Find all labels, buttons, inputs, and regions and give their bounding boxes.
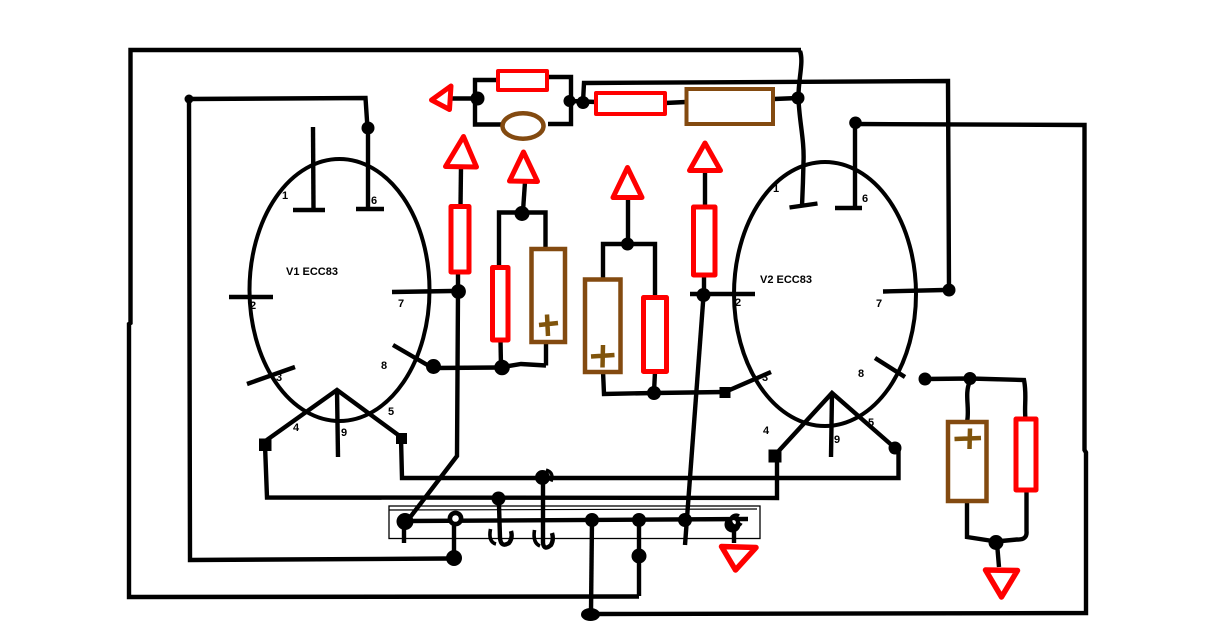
dot below strip right ring bbox=[725, 517, 741, 533]
box B1 (brown rectangle) bbox=[687, 89, 774, 124]
junction bus dot a bbox=[585, 513, 599, 527]
wire drop from bus dot to bottom wire bbox=[591, 520, 592, 612]
wire input to node bbox=[452, 96, 471, 100]
wire V1 pin8 diagonal and cathode network bbox=[393, 345, 430, 367]
wire B1 to pin1 node bbox=[774, 98, 798, 99]
V2 pin2 grid line bbox=[690, 292, 755, 296]
junction R1 right node bbox=[564, 95, 576, 107]
svg-text:3: 3 bbox=[762, 372, 768, 384]
square dot V2 pin3 bbox=[720, 387, 731, 398]
junction V2 pin5 dot bbox=[889, 442, 902, 455]
junction V1 pin8 dot bbox=[426, 359, 441, 374]
svg-text:5: 5 bbox=[868, 417, 874, 429]
wire hook drop 2 bbox=[543, 483, 553, 548]
junction bus dot c bbox=[678, 513, 692, 527]
wire input node up to R1 bbox=[475, 80, 498, 99]
svg-text:7: 7 bbox=[398, 298, 404, 310]
junction HT node bbox=[577, 96, 590, 109]
V2 heater triangle and pin9 bbox=[775, 393, 895, 455]
svg-text:7: 7 bbox=[876, 298, 882, 310]
wire R3 bottom stub bbox=[456, 272, 460, 291]
supply triangle T3 bbox=[613, 168, 642, 198]
wire pin7 node down-diagonal to big dot bbox=[408, 291, 458, 520]
ground triangle G2 bbox=[986, 570, 1018, 597]
wire T1 stub bbox=[458, 167, 463, 207]
supply triangle T4 bbox=[690, 143, 721, 171]
junction V2 pin7 node bbox=[943, 284, 956, 297]
wire V2 pin2 long drop to bus bbox=[685, 296, 704, 545]
ring on bus (hollow) bbox=[450, 513, 461, 524]
wire V1 pin7 line bbox=[392, 291, 452, 292]
V1 heater triangle and pin9 bbox=[264, 390, 401, 442]
svg-text:9: 9 bbox=[341, 427, 347, 439]
junction corner dot top-left bbox=[185, 95, 194, 104]
square dot V1 pin4 bbox=[259, 439, 272, 452]
wire heater run 2 (V1 pin4 to V2 pin4) bbox=[265, 445, 777, 498]
svg-text:1: 1 bbox=[282, 190, 288, 202]
wire drop ring to blob bbox=[452, 523, 456, 552]
wire C1 left side bbox=[475, 99, 502, 125]
input arrow triangle bbox=[432, 86, 452, 110]
wire C3/R5 bottom to V2 grid pin3 bbox=[603, 371, 725, 394]
junction V2 pin1 node bbox=[792, 92, 805, 105]
svg-text:2: 2 bbox=[250, 300, 256, 312]
svg-text:3: 3 bbox=[276, 372, 282, 384]
resistor R2 bbox=[596, 93, 665, 114]
wire ground bus in terminal strip bbox=[406, 519, 748, 521]
V2 pin6 plate bbox=[853, 124, 857, 208]
wire C4 top squiggle bbox=[967, 381, 970, 422]
svg-text:V2 ECC83: V2 ECC83 bbox=[760, 274, 812, 286]
resistor R6 bbox=[694, 207, 716, 275]
wire T2 stub bbox=[523, 182, 525, 211]
wire right border and bottom bus bbox=[591, 124, 1086, 614]
wire T4 stub bbox=[703, 171, 707, 207]
plus sign C3 bbox=[591, 345, 615, 368]
capacitor C3 bbox=[585, 280, 621, 373]
wire T3 stub bbox=[626, 198, 630, 244]
junction bus dot b bbox=[632, 513, 646, 527]
wire HT rail to V2 grid (y=82) and drop to pin 7 bbox=[583, 81, 949, 290]
junction V2 pin8 dot bbox=[919, 373, 932, 386]
wire C2 bottom stub bbox=[544, 342, 548, 366]
wire node to R2 bbox=[571, 101, 596, 102]
wire R6 bottom stub bbox=[702, 275, 706, 293]
wire R2 to B1 bbox=[665, 102, 686, 103]
svg-text:9: 9 bbox=[834, 434, 840, 446]
junction V2 pin6 node bbox=[849, 117, 862, 130]
wire R4 bottom stub bbox=[498, 340, 503, 367]
wire ground/border loop left-top bbox=[129, 50, 801, 597]
svg-text:4: 4 bbox=[763, 425, 770, 437]
resistor R7 bbox=[1016, 419, 1036, 490]
wire stub below big dot bbox=[402, 527, 406, 543]
junction V2 pin2 node bbox=[697, 288, 711, 302]
capacitor C2 bbox=[532, 249, 566, 342]
wire R1 right side down bbox=[547, 77, 571, 124]
junction R5 bottom dot bbox=[647, 386, 661, 400]
wire hook drop 1 bbox=[499, 505, 512, 545]
wire V1 pin2 grid line bbox=[229, 295, 273, 299]
V2 pin1 plate drop from top rail bbox=[798, 51, 803, 206]
junction input node bbox=[471, 92, 485, 106]
junction V1 pin7 node bbox=[451, 284, 466, 299]
ground triangle G1 bbox=[722, 547, 757, 571]
curl on hook dot 2 bbox=[546, 470, 552, 482]
svg-text:6: 6 bbox=[371, 195, 377, 207]
junction heater2 hook dot bbox=[492, 492, 506, 506]
terminal strip thin rectangle bbox=[389, 506, 760, 539]
capacitor C4 bbox=[948, 422, 987, 501]
blob on drop b bbox=[632, 549, 647, 564]
svg-text:6: 6 bbox=[862, 193, 868, 205]
junction goalpost 2 node bbox=[515, 206, 530, 221]
wire V1 pin3 diagonal bbox=[247, 367, 295, 384]
resistor R3 bbox=[451, 207, 469, 273]
svg-text:5: 5 bbox=[388, 406, 394, 418]
wire V2 cathode to R7/C4 bbox=[925, 379, 1026, 420]
supply triangle T2 bbox=[510, 152, 538, 182]
junction heater1 hook dot bbox=[535, 470, 550, 485]
plus sign C4 bbox=[955, 429, 982, 450]
wire stub to ground G2 bbox=[997, 543, 999, 567]
square dot V1 pin5 bbox=[396, 433, 407, 444]
ring strip right (hollow) bbox=[731, 520, 736, 525]
svg-text:4: 4 bbox=[293, 422, 300, 434]
blob below ring bbox=[446, 550, 462, 566]
blob bottom-left of bottom wire bbox=[581, 608, 600, 621]
tube V2 ECC83 envelope bbox=[734, 162, 916, 426]
big dot bus left bbox=[397, 513, 414, 530]
wire goalpost C3/R5 bbox=[603, 244, 655, 297]
wire V1 plate-B feedback loop (top-left tall loop) bbox=[189, 98, 450, 560]
resistor R4 bbox=[493, 268, 509, 341]
V1 pin6 plate bbox=[366, 128, 370, 209]
svg-text:V1 ECC83: V1 ECC83 bbox=[286, 266, 338, 278]
resistor R5 bbox=[644, 298, 667, 372]
plus sign C2 bbox=[539, 315, 558, 337]
junction goalpost 3 node bbox=[621, 238, 634, 251]
svg-text:8: 8 bbox=[858, 368, 864, 380]
svg-text:8: 8 bbox=[381, 360, 387, 372]
wire drop from bus dot to border bottom bbox=[637, 520, 641, 596]
junction V1 pin6 top bbox=[362, 122, 375, 135]
wire R5 bottom stub bbox=[654, 372, 655, 392]
wire V2 pin3 diagonal bbox=[725, 372, 771, 392]
junction R4 bottom dot bbox=[494, 360, 510, 376]
wire goalpost R4/C2 bbox=[499, 213, 546, 268]
V2 pin7 grid line bbox=[883, 290, 944, 292]
junction C4/R7 bottom dot bbox=[989, 535, 1004, 550]
wire strip right stub bbox=[732, 527, 736, 543]
V1 pin1 plate bbox=[311, 127, 316, 210]
junction C4 top dot bbox=[964, 372, 977, 385]
svg-text:1: 1 bbox=[773, 183, 779, 195]
resistor R1 (top feedback) bbox=[498, 71, 547, 90]
wire heater run 1 (V1 pin5 to V2 pin5) bbox=[401, 438, 899, 478]
square dot V2 pin4 bbox=[769, 450, 782, 463]
svg-text:2: 2 bbox=[735, 297, 741, 309]
capacitor C1 (ellipse) bbox=[503, 113, 544, 138]
wire C4 bottom bbox=[967, 501, 996, 542]
wire R7 bottom with curl bbox=[996, 490, 1027, 542]
V2 pin8 diagonal bbox=[875, 358, 905, 377]
supply triangle T1 bbox=[446, 137, 477, 168]
tube V1 ECC83 envelope bbox=[250, 159, 430, 421]
